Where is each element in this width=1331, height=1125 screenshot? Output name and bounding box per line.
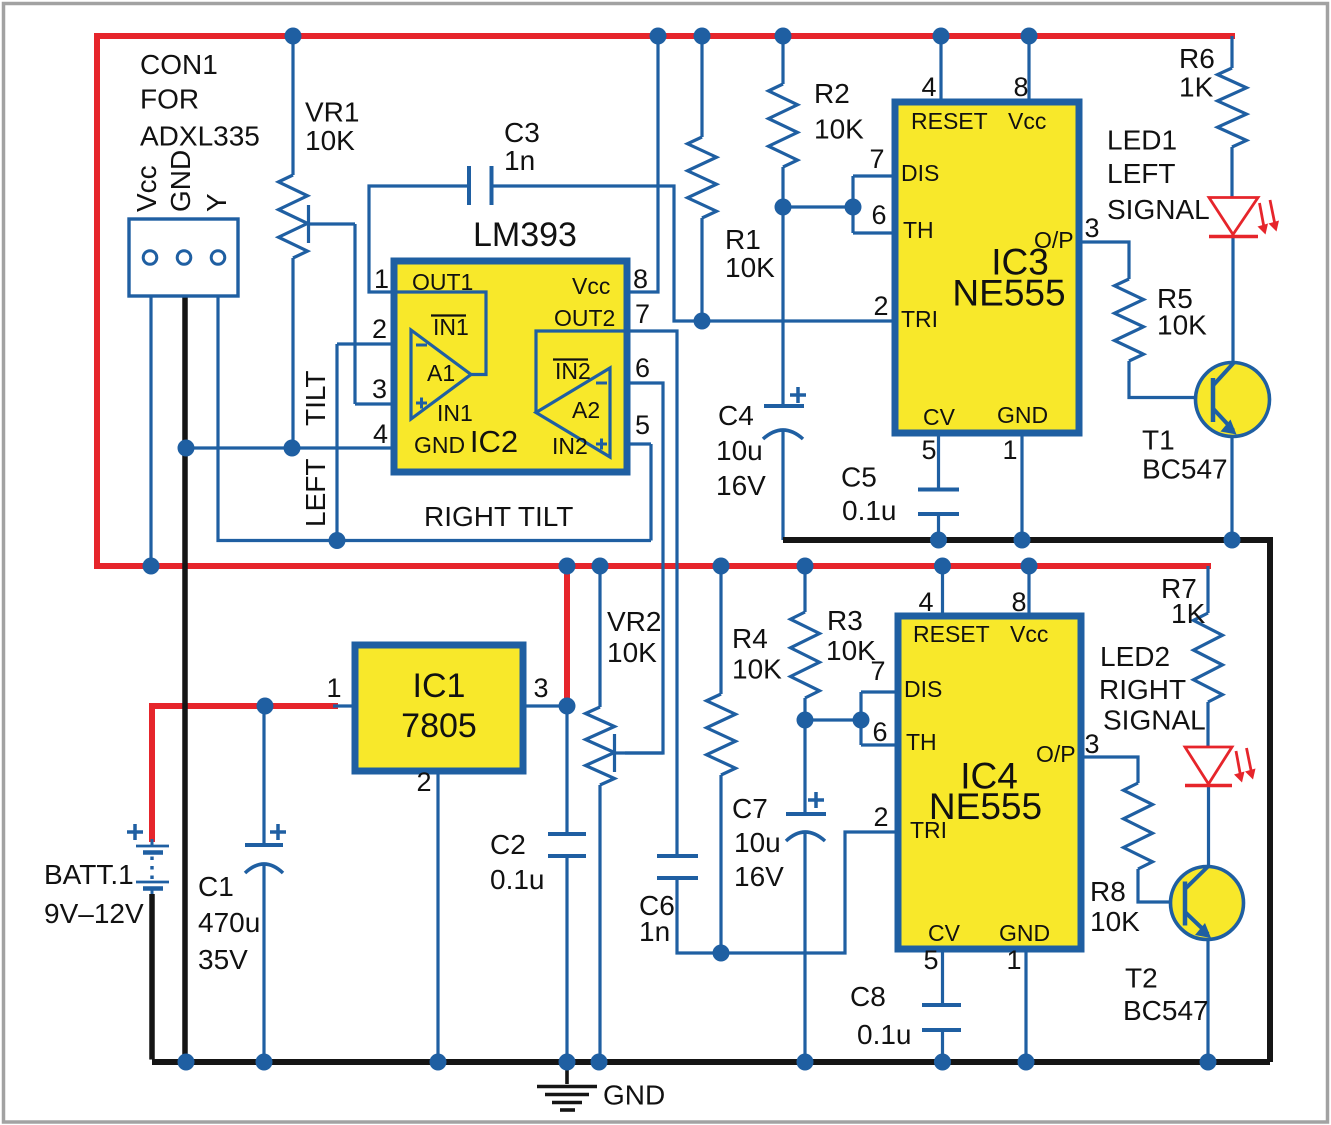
svg-text:R1: R1 — [725, 224, 761, 255]
svg-text:C3: C3 — [504, 117, 540, 148]
svg-text:Vcc: Vcc — [131, 165, 162, 212]
svg-text:16V: 16V — [734, 861, 784, 892]
svg-text:GND: GND — [603, 1080, 665, 1111]
svg-text:NE555: NE555 — [952, 273, 1065, 314]
svg-text:VR1: VR1 — [305, 97, 359, 128]
svg-text:NE555: NE555 — [929, 786, 1042, 827]
svg-text:2: 2 — [873, 802, 888, 832]
svg-text:DIS: DIS — [904, 676, 942, 702]
svg-text:4: 4 — [921, 72, 936, 102]
svg-text:DIS: DIS — [901, 160, 939, 186]
svg-text:3: 3 — [1084, 729, 1099, 759]
svg-text:IN2: IN2 — [552, 433, 588, 459]
svg-text:VR2: VR2 — [607, 606, 661, 637]
svg-text:R4: R4 — [732, 623, 768, 654]
svg-text:TILT: TILT — [300, 371, 331, 426]
svg-text:4: 4 — [918, 587, 933, 617]
svg-text:3: 3 — [372, 374, 387, 404]
svg-text:6: 6 — [635, 353, 650, 383]
svg-text:10K: 10K — [732, 654, 782, 685]
svg-text:IN1: IN1 — [437, 400, 473, 426]
svg-text:C4: C4 — [718, 400, 754, 431]
svg-text:LEFT: LEFT — [300, 459, 331, 527]
svg-text:1K: 1K — [1179, 72, 1214, 103]
svg-text:4: 4 — [373, 419, 388, 449]
svg-text:1n: 1n — [504, 145, 535, 176]
svg-text:6: 6 — [871, 200, 886, 230]
svg-text:Vcc: Vcc — [1010, 621, 1048, 647]
svg-text:7805: 7805 — [401, 707, 477, 745]
svg-text:CV: CV — [923, 404, 956, 430]
svg-text:LEFT: LEFT — [1107, 158, 1175, 189]
svg-text:C8: C8 — [850, 981, 886, 1012]
svg-text:10u: 10u — [734, 827, 781, 858]
svg-text:BATT.1: BATT.1 — [44, 859, 134, 890]
svg-text:IC2: IC2 — [470, 424, 518, 459]
svg-text:IN2: IN2 — [555, 358, 591, 384]
svg-text:10K: 10K — [1157, 310, 1207, 341]
svg-text:1K: 1K — [1171, 598, 1206, 629]
svg-text:C7: C7 — [732, 793, 768, 824]
svg-text:2: 2 — [416, 767, 431, 797]
svg-text:T2: T2 — [1125, 963, 1158, 994]
svg-text:10K: 10K — [1090, 906, 1140, 937]
svg-text:1: 1 — [1002, 435, 1017, 465]
svg-text:R3: R3 — [827, 605, 863, 636]
svg-text:BC547: BC547 — [1123, 995, 1209, 1026]
svg-text:1n: 1n — [639, 916, 670, 947]
svg-text:RIGHT: RIGHT — [1099, 674, 1186, 705]
svg-text:0.1u: 0.1u — [490, 864, 545, 895]
svg-text:LED2: LED2 — [1100, 641, 1170, 672]
svg-text:8: 8 — [1013, 72, 1028, 102]
svg-text:0.1u: 0.1u — [842, 495, 897, 526]
svg-text:2: 2 — [372, 314, 387, 344]
svg-text:7: 7 — [635, 299, 650, 329]
svg-text:Vcc: Vcc — [1008, 108, 1046, 134]
svg-text:5: 5 — [921, 435, 936, 465]
svg-text:TH: TH — [903, 217, 934, 243]
svg-text:GND: GND — [999, 920, 1050, 946]
svg-text:9V–12V: 9V–12V — [44, 898, 144, 929]
svg-text:Y: Y — [201, 193, 232, 212]
svg-text:1: 1 — [326, 673, 341, 703]
svg-text:8: 8 — [1011, 587, 1026, 617]
svg-text:ADXL335: ADXL335 — [140, 121, 260, 152]
svg-text:C2: C2 — [490, 829, 526, 860]
svg-text:7: 7 — [870, 656, 885, 686]
svg-text:R2: R2 — [814, 78, 850, 109]
svg-text:OUT1: OUT1 — [412, 269, 473, 295]
svg-text:FOR: FOR — [140, 84, 199, 115]
svg-text:T1: T1 — [1142, 425, 1175, 456]
svg-text:C5: C5 — [841, 462, 877, 493]
svg-text:3: 3 — [533, 673, 548, 703]
svg-text:7: 7 — [869, 144, 884, 174]
svg-text:LM393: LM393 — [473, 216, 577, 254]
svg-text:6: 6 — [872, 717, 887, 747]
svg-text:A1: A1 — [427, 360, 455, 386]
svg-text:10u: 10u — [716, 435, 763, 466]
svg-text:470u: 470u — [198, 907, 260, 938]
svg-text:R8: R8 — [1090, 876, 1126, 907]
svg-text:8: 8 — [633, 264, 648, 294]
svg-text:0.1u: 0.1u — [857, 1019, 912, 1050]
svg-text:10K: 10K — [814, 114, 864, 145]
svg-text:RESET: RESET — [913, 621, 990, 647]
svg-text:SIGNAL: SIGNAL — [1107, 194, 1210, 225]
svg-text:5: 5 — [635, 410, 650, 440]
svg-text:10K: 10K — [305, 125, 355, 156]
svg-text:35V: 35V — [198, 944, 248, 975]
svg-text:IN1: IN1 — [433, 314, 469, 340]
svg-text:GND: GND — [414, 432, 465, 458]
svg-text:RESET: RESET — [911, 108, 988, 134]
svg-text:R6: R6 — [1179, 43, 1215, 74]
svg-text:GND: GND — [997, 402, 1048, 428]
svg-text:1: 1 — [374, 264, 389, 294]
svg-text:10K: 10K — [607, 637, 657, 668]
svg-text:A2: A2 — [572, 397, 600, 423]
svg-text:IC1: IC1 — [413, 667, 466, 705]
svg-text:BC547: BC547 — [1142, 454, 1228, 485]
svg-text:1: 1 — [1006, 945, 1021, 975]
svg-text:Vcc: Vcc — [572, 273, 610, 299]
svg-text:16V: 16V — [716, 470, 766, 501]
svg-text:2: 2 — [873, 291, 888, 321]
svg-text:LED1: LED1 — [1107, 125, 1177, 156]
svg-text:RIGHT TILT: RIGHT TILT — [424, 501, 573, 532]
svg-text:TRI: TRI — [901, 306, 938, 332]
svg-text:TH: TH — [906, 729, 937, 755]
svg-text:OUT2: OUT2 — [554, 305, 615, 331]
svg-text:10K: 10K — [725, 252, 775, 283]
svg-text:GND: GND — [165, 150, 196, 212]
svg-text:O/P: O/P — [1036, 741, 1076, 767]
svg-text:3: 3 — [1084, 213, 1099, 243]
svg-text:CV: CV — [928, 920, 961, 946]
svg-text:10K: 10K — [826, 635, 876, 666]
svg-text:C1: C1 — [198, 871, 234, 902]
svg-text:CON1: CON1 — [140, 49, 218, 80]
svg-text:5: 5 — [923, 945, 938, 975]
svg-text:SIGNAL: SIGNAL — [1103, 705, 1206, 736]
